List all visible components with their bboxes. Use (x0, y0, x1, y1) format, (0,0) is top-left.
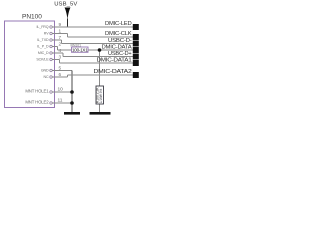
svg-text:7: 7 (59, 35, 62, 40)
wire to RN101 (58, 49, 72, 51)
wire pin5 GND stub (55, 70, 73, 72)
wire RN101 to DMIC-DATA (88, 49, 133, 51)
svg-text:USBC-D-: USBC-D- (108, 38, 132, 44)
wire to USBC-D- (62, 43, 134, 45)
pin 10 (25, 87, 63, 94)
net label USBC-D+ (108, 51, 139, 60)
svg-text:IL_FRQ: IL_FRQ (37, 25, 49, 29)
svg-text:GND: GND (41, 68, 49, 72)
svg-text:PN100: PN100 (22, 14, 42, 21)
wire pin6 stub (55, 76, 68, 78)
svg-text:4: 4 (59, 48, 62, 53)
wire pin3 jog (59, 60, 61, 64)
pin 4 (38, 48, 62, 55)
pin 11 (25, 98, 62, 105)
net label USBC-D- (108, 38, 139, 47)
wire USB_5V stem (67, 19, 69, 28)
wire pin11 stub (55, 102, 73, 104)
net label DMIC-DATA1 (97, 57, 139, 66)
svg-text:1/16W 5%: 1/16W 5% (99, 89, 103, 104)
wire pin6 jog (67, 75, 69, 77)
resistor RN101 (71, 43, 89, 52)
svg-text:DMIC-CLK: DMIC-CLK (105, 31, 132, 37)
wire to DMIC-CLK (68, 36, 134, 38)
svg-text:DMIC-LED: DMIC-LED (105, 21, 132, 27)
svg-text:IL_P_D: IL_P_D (37, 44, 49, 48)
svg-text:IL_TXD: IL_TXD (37, 38, 49, 42)
svg-text:RV: RV (44, 31, 49, 35)
svg-text:NC: NC (44, 75, 49, 79)
wire pin7 jog (61, 40, 63, 44)
svg-text:6: 6 (59, 72, 62, 77)
wire pin1 stub (55, 33, 68, 35)
wire pulldown top (99, 50, 101, 86)
junction pin10 (70, 90, 74, 94)
wire to DMIC-DATA2 (68, 74, 134, 76)
svg-text:MIC_D: MIC_D (38, 51, 49, 55)
junction on DMIC-DATA (98, 48, 102, 52)
wire pin7 stub (55, 39, 62, 41)
wire pin2 jog (57, 47, 59, 51)
svg-text:USB_5V: USB_5V (54, 2, 77, 8)
ground (GND pins) (64, 112, 80, 115)
ground (pulldown) (90, 112, 111, 115)
svg-text:9: 9 (59, 22, 62, 27)
wire to USBC-D+ (63, 56, 133, 58)
pin 6 (44, 72, 62, 79)
wire pulldown bottom (99, 104, 101, 113)
junction pin11 (70, 101, 74, 105)
wire pin3 stub (55, 59, 60, 61)
connector PN100 body (5, 21, 55, 108)
svg-text:10: 10 (58, 87, 64, 93)
svg-text:DMIC-DATA2: DMIC-DATA2 (94, 69, 132, 75)
svg-text:100-1X1: 100-1X1 (72, 48, 88, 53)
svg-text:1: 1 (59, 28, 62, 33)
wire pin4 stub (55, 52, 64, 54)
resistor R100 pulldown (96, 86, 104, 104)
svg-text:2: 2 (59, 41, 62, 46)
power symbol USB_5V (54, 2, 77, 20)
wire pin10 stub (55, 91, 73, 93)
svg-text:MNT HOLE2: MNT HOLE2 (25, 100, 49, 105)
wire pin2 stub (55, 46, 58, 48)
net label DMIC-DATA2 (94, 69, 139, 78)
wire pin4 jog (62, 53, 64, 57)
wire pin1 jog (67, 34, 69, 38)
pin 1 (44, 28, 62, 35)
pin 5 (41, 65, 62, 72)
svg-text:DMIC-DATA1: DMIC-DATA1 (97, 57, 132, 63)
net label DMIC-DATA (102, 44, 139, 53)
svg-text:DMIC-DATA: DMIC-DATA (102, 44, 133, 50)
pin 9 (37, 22, 62, 29)
pin 7 (37, 35, 62, 42)
pin 3 (36, 54, 61, 61)
net label DMIC-CLK (105, 31, 139, 40)
svg-text:MNT HOLE1: MNT HOLE1 (25, 89, 49, 94)
wire to DMIC-DATA1 (60, 62, 134, 64)
wire pin9 to DMIC-LED (55, 26, 134, 28)
svg-text:3: 3 (59, 54, 62, 59)
svg-text:SCK/LE: SCK/LE (36, 57, 49, 61)
net label DMIC-LED (105, 21, 139, 30)
svg-text:11: 11 (58, 98, 63, 104)
pin 2 (37, 41, 61, 48)
wire GND vertical (71, 71, 73, 113)
svg-text:USBC-D+: USBC-D+ (108, 51, 132, 57)
svg-text:5: 5 (59, 65, 62, 70)
